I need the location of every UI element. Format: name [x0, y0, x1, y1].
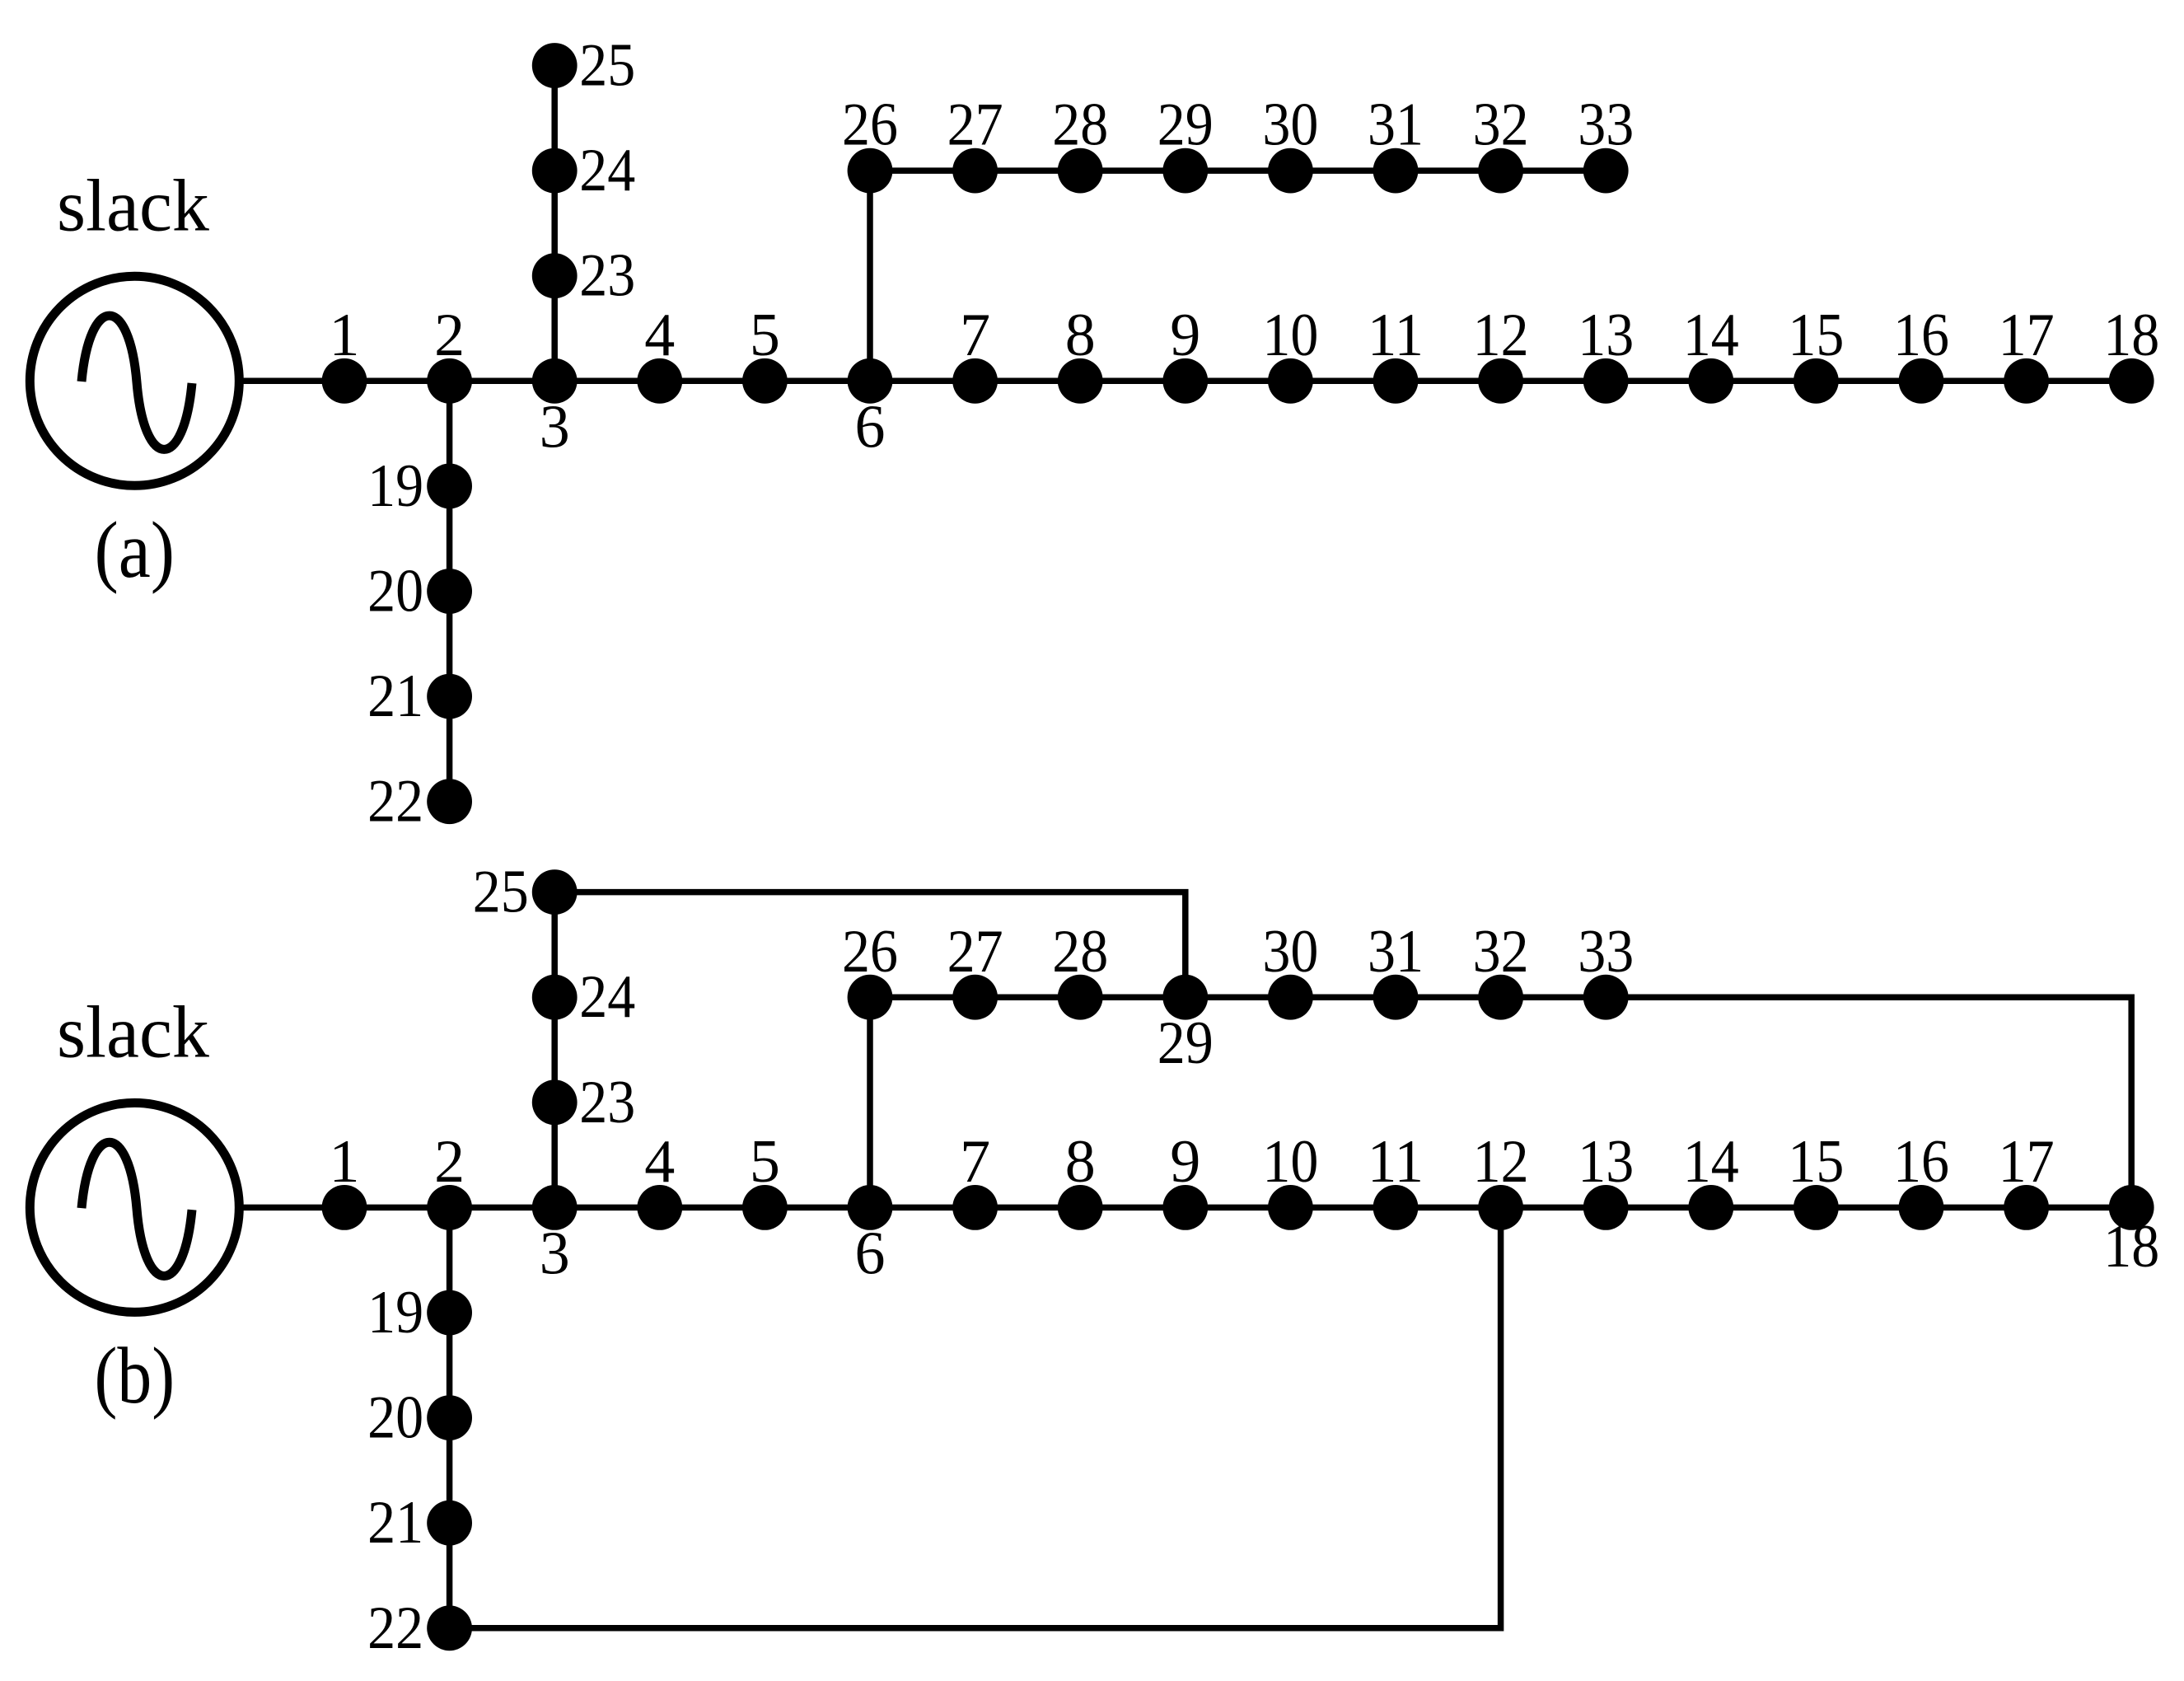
- node bus 33 (a): [1583, 148, 1629, 194]
- svg-text:23: 23: [579, 242, 635, 310]
- svg-text:18: 18: [2103, 1213, 2159, 1281]
- svg-text:20: 20: [367, 558, 423, 625]
- svg-text:17: 17: [1999, 302, 2055, 369]
- wire b: bus 2 down to bus 22 branch: [447, 1207, 453, 1627]
- node bus 5 (a): [742, 358, 788, 404]
- node bus 11 (a): [1373, 358, 1419, 404]
- node bus 11 (b): [1373, 1185, 1419, 1230]
- node bus 1 (a): [322, 358, 367, 404]
- svg-text:10: 10: [1262, 1128, 1318, 1196]
- svg-text:15: 15: [1788, 1128, 1844, 1196]
- node bus 29 (a): [1162, 148, 1208, 194]
- node bus 23 (a): [532, 253, 578, 298]
- node bus 22 (b): [427, 1605, 472, 1651]
- node bus 7 (a): [952, 358, 998, 404]
- node bus 24 (a): [532, 148, 578, 194]
- svg-text:7: 7: [960, 302, 990, 369]
- svg-text:19: 19: [367, 452, 423, 520]
- node bus 3 (a): [532, 358, 578, 404]
- svg-text:32: 32: [1473, 91, 1529, 159]
- node bus 24 (b): [532, 975, 578, 1020]
- wire b: tie line bus 25 to bus 29: [554, 892, 1186, 998]
- svg-text:5: 5: [750, 302, 780, 369]
- node bus 29 (b): [1162, 975, 1208, 1020]
- node bus 27 (b): [952, 975, 998, 1020]
- wire b: bus 3 up to bus 25 branch: [551, 892, 558, 1208]
- node bus 8 (a): [1058, 358, 1103, 404]
- svg-text:13: 13: [1578, 1128, 1634, 1196]
- node bus 14 (a): [1688, 358, 1733, 404]
- svg-text:3: 3: [540, 1220, 570, 1287]
- svg-text:24: 24: [579, 963, 635, 1031]
- svg-text:13: 13: [1578, 302, 1634, 369]
- node bus 10 (b): [1268, 1185, 1313, 1230]
- node bus 25 (b): [532, 869, 578, 915]
- node bus 31 (b): [1373, 975, 1419, 1020]
- wire b: bus 26 to 33 lateral + tie to bus 18: [870, 997, 2131, 1207]
- svg-text:27: 27: [947, 918, 1003, 986]
- svg-text:27: 27: [947, 91, 1003, 159]
- wire a: slack to bus 18 main feeder: [241, 378, 2131, 385]
- svg-text:8: 8: [1065, 1128, 1096, 1196]
- node bus 9 (b): [1162, 1185, 1208, 1230]
- svg-text:(b): (b): [95, 1332, 175, 1420]
- svg-text:30: 30: [1262, 91, 1318, 159]
- node bus 30 (a): [1268, 148, 1313, 194]
- svg-text:22: 22: [367, 768, 423, 836]
- svg-text:12: 12: [1473, 302, 1529, 369]
- wire b: bus 6 up to bus 26: [867, 997, 873, 1207]
- svg-text:11: 11: [1368, 302, 1424, 369]
- wire a: bus 2 down to bus 22 branch: [447, 381, 453, 801]
- sine wave symbol (a): [82, 316, 192, 449]
- wire a: bus 3 up to bus 25 branch: [551, 66, 558, 382]
- node bus 13 (b): [1583, 1185, 1629, 1230]
- svg-text:slack: slack: [57, 166, 209, 247]
- node bus 7 (b): [952, 1185, 998, 1230]
- node bus 15 (a): [1793, 358, 1839, 404]
- wire a: bus 26 to bus 33 lateral: [870, 167, 1606, 174]
- node bus 6 (b): [848, 1185, 893, 1230]
- node bus 32 (a): [1478, 148, 1523, 194]
- svg-text:4: 4: [644, 1128, 675, 1196]
- node bus 33 (b): [1583, 975, 1629, 1020]
- svg-text:16: 16: [1893, 1128, 1949, 1196]
- svg-text:slack: slack: [57, 992, 209, 1074]
- svg-text:4: 4: [644, 302, 675, 369]
- svg-text:14: 14: [1683, 302, 1739, 369]
- svg-text:19: 19: [367, 1279, 423, 1346]
- svg-text:12: 12: [1473, 1128, 1529, 1196]
- svg-text:10: 10: [1262, 302, 1318, 369]
- svg-text:33: 33: [1578, 91, 1634, 159]
- node bus 2 (b): [427, 1185, 472, 1230]
- svg-text:6: 6: [855, 1220, 886, 1287]
- svg-text:9: 9: [1170, 1128, 1200, 1196]
- node bus 8 (b): [1058, 1185, 1103, 1230]
- node bus 23 (b): [532, 1079, 578, 1125]
- node bus 32 (b): [1478, 975, 1523, 1020]
- node bus 30 (b): [1268, 975, 1313, 1020]
- node bus 5 (b): [742, 1185, 788, 1230]
- svg-text:2: 2: [434, 1128, 465, 1196]
- svg-text:30: 30: [1262, 918, 1318, 986]
- node bus 20 (b): [427, 1395, 472, 1440]
- node bus 21 (a): [427, 674, 472, 719]
- svg-text:31: 31: [1368, 91, 1424, 159]
- node bus 28 (b): [1058, 975, 1103, 1020]
- svg-text:5: 5: [750, 1128, 780, 1196]
- node bus 13 (a): [1583, 358, 1629, 404]
- node bus 15 (b): [1793, 1185, 1839, 1230]
- svg-text:20: 20: [367, 1384, 423, 1452]
- node bus 26 (b): [848, 975, 893, 1020]
- node bus 3 (b): [532, 1185, 578, 1230]
- svg-text:29: 29: [1157, 1009, 1214, 1077]
- svg-text:(a): (a): [95, 506, 175, 594]
- node bus 12 (b): [1478, 1185, 1523, 1230]
- svg-text:18: 18: [2103, 302, 2159, 369]
- node bus 17 (a): [2004, 358, 2049, 404]
- wire b: tie line bus 22 to bus 12: [450, 1207, 1501, 1627]
- svg-text:17: 17: [1999, 1128, 2055, 1196]
- svg-text:28: 28: [1052, 91, 1108, 159]
- node bus 18 (a): [2109, 358, 2154, 404]
- node bus 19 (b): [427, 1290, 472, 1336]
- svg-text:6: 6: [855, 393, 886, 461]
- svg-text:15: 15: [1788, 302, 1844, 369]
- node bus 27 (a): [952, 148, 998, 194]
- node bus 10 (a): [1268, 358, 1313, 404]
- node bus 1 (b): [322, 1185, 367, 1230]
- node bus 17 (b): [2004, 1185, 2049, 1230]
- svg-text:7: 7: [960, 1128, 990, 1196]
- svg-text:21: 21: [367, 663, 423, 730]
- wire a: bus 6 up to bus 26: [867, 171, 873, 381]
- sine wave symbol (b): [82, 1142, 192, 1276]
- svg-text:9: 9: [1170, 302, 1200, 369]
- svg-text:11: 11: [1368, 1128, 1424, 1196]
- svg-text:29: 29: [1157, 91, 1214, 159]
- slack source generator circle (a): [30, 276, 239, 485]
- svg-text:33: 33: [1578, 918, 1634, 986]
- node bus 6 (a): [848, 358, 893, 404]
- node bus 19 (a): [427, 464, 472, 509]
- svg-text:8: 8: [1065, 302, 1096, 369]
- node bus 16 (a): [1899, 358, 1944, 404]
- node bus 28 (a): [1058, 148, 1103, 194]
- node bus 4 (b): [637, 1185, 682, 1230]
- node bus 21 (b): [427, 1501, 472, 1546]
- svg-text:32: 32: [1473, 918, 1529, 986]
- wire b: slack to bus 18 main feeder: [241, 1205, 2131, 1211]
- svg-text:26: 26: [842, 91, 898, 159]
- svg-text:14: 14: [1683, 1128, 1739, 1196]
- node bus 20 (a): [427, 569, 472, 614]
- node bus 25 (a): [532, 43, 578, 88]
- slack source generator circle (b): [30, 1103, 239, 1312]
- svg-text:25: 25: [473, 859, 529, 926]
- node bus 26 (a): [848, 148, 893, 194]
- svg-text:26: 26: [842, 918, 898, 986]
- svg-text:25: 25: [579, 32, 635, 100]
- svg-text:1: 1: [330, 302, 360, 369]
- svg-text:2: 2: [434, 302, 465, 369]
- svg-text:22: 22: [367, 1594, 423, 1662]
- node bus 2 (a): [427, 358, 472, 404]
- svg-text:24: 24: [579, 137, 635, 204]
- node bus 14 (b): [1688, 1185, 1733, 1230]
- svg-text:23: 23: [579, 1069, 635, 1136]
- node bus 18 (b): [2109, 1185, 2154, 1230]
- node bus 9 (a): [1162, 358, 1208, 404]
- node bus 4 (a): [637, 358, 682, 404]
- svg-text:3: 3: [540, 393, 570, 461]
- svg-text:21: 21: [367, 1489, 423, 1557]
- node bus 12 (a): [1478, 358, 1523, 404]
- node bus 16 (b): [1899, 1185, 1944, 1230]
- svg-text:28: 28: [1052, 918, 1108, 986]
- svg-text:16: 16: [1893, 302, 1949, 369]
- node bus 31 (a): [1373, 148, 1419, 194]
- svg-text:1: 1: [330, 1128, 360, 1196]
- svg-text:31: 31: [1368, 918, 1424, 986]
- node bus 22 (a): [427, 779, 472, 824]
